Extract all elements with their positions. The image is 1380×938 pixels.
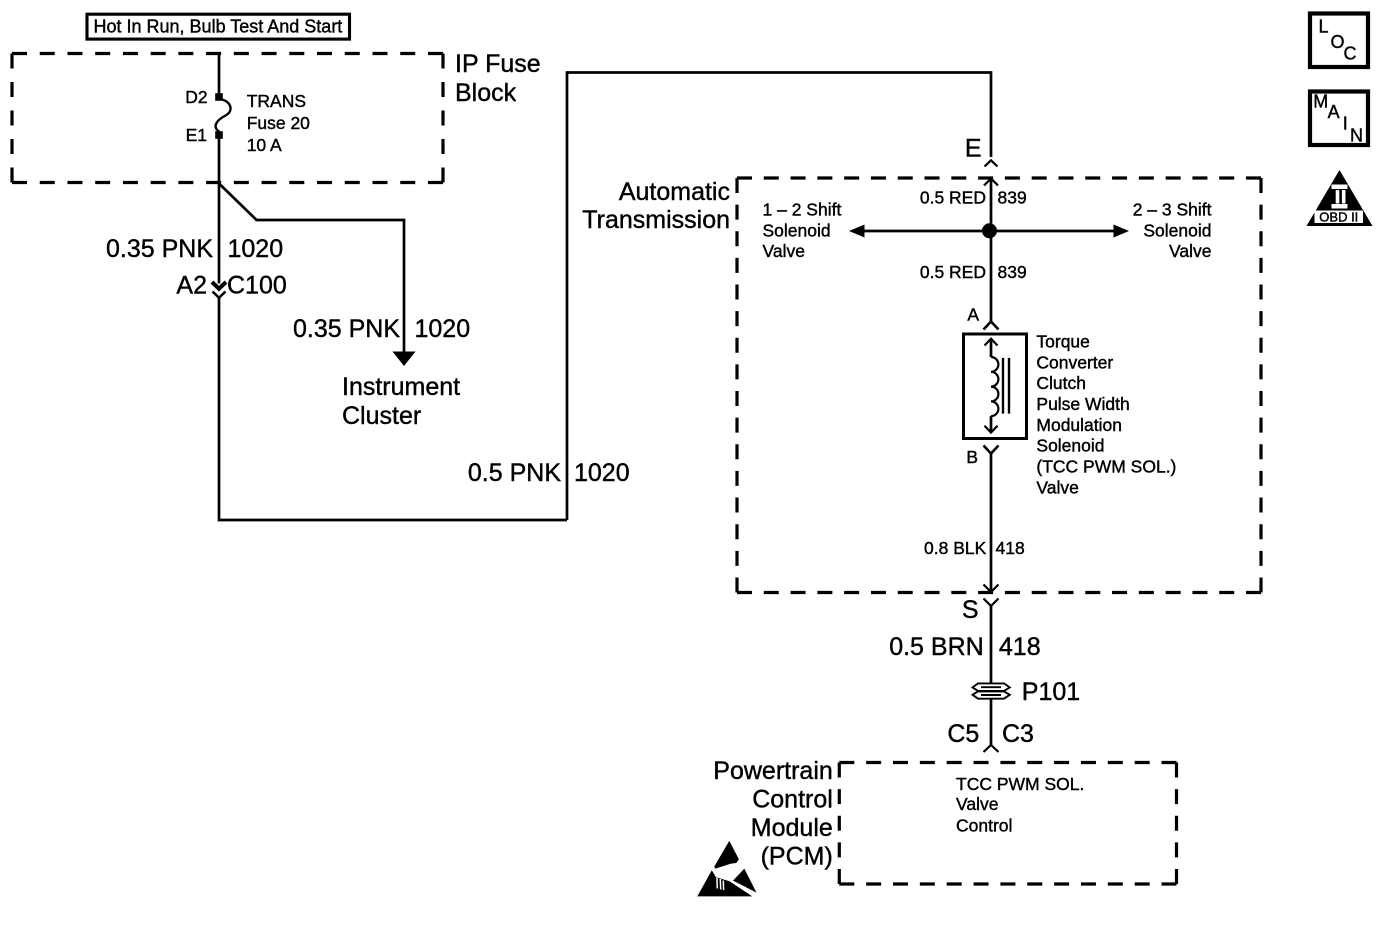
wire from C100 down and right to riser: [219, 298, 567, 520]
wire from node down to terminal A: [990, 231, 993, 321]
svg-text:(TCC PWM SOL.): (TCC PWM SOL.): [1036, 457, 1176, 477]
svg-text:Converter: Converter: [1036, 352, 1113, 372]
wire to 1-2 shift solenoid valve: [862, 230, 990, 233]
svg-text:D2: D2: [185, 87, 207, 107]
svg-text:418: 418: [999, 633, 1041, 661]
svg-text:A2: A2: [176, 272, 207, 300]
svg-text:Clutch: Clutch: [1036, 373, 1086, 393]
svg-text:C5: C5: [947, 720, 979, 748]
terminal E chevron: [985, 160, 998, 166]
ESD sensitive device symbol: [697, 841, 756, 897]
terminal B chevron: [984, 446, 999, 454]
svg-text:E1: E1: [186, 125, 207, 145]
wire from feed into fuse: [218, 54, 221, 95]
wire label 0.5 PNK 1020: [468, 459, 630, 487]
svg-text:Control: Control: [752, 785, 833, 813]
wire riser up and across to transmission: [567, 73, 991, 521]
wire label 0.35 PNK 1020 (upper): [106, 235, 283, 263]
svg-text:TCC PWM SOL.: TCC PWM SOL.: [956, 774, 1084, 794]
Instrument Cluster label: [342, 373, 460, 430]
terminal C5 / C3 labels: [947, 720, 1034, 748]
svg-text:0.5 PNK: 0.5 PNK: [468, 459, 561, 487]
svg-text:TRANS: TRANS: [247, 91, 306, 111]
svg-text:OBD II: OBD II: [1319, 209, 1358, 224]
svg-text:Solenoid: Solenoid: [1143, 220, 1211, 240]
svg-text:A: A: [1328, 102, 1340, 122]
terminal C5/C3 chevron: [984, 745, 999, 752]
svg-text:10 A: 10 A: [247, 135, 282, 155]
wire from fuse E1 down to connector C100: [218, 139, 221, 284]
IP Fuse Block dashed box: [12, 54, 443, 183]
feed box "Hot In Run, Bulb Test And Start": [87, 14, 350, 39]
svg-text:N: N: [1350, 125, 1363, 145]
arrowhead to 1-2 shift solenoid: [849, 225, 865, 238]
svg-text:Control: Control: [956, 815, 1012, 835]
PCM label: [713, 757, 833, 871]
svg-text:Valve: Valve: [1036, 477, 1078, 497]
terminal A chevron: [984, 322, 999, 330]
wire label 0.5 RED 839 (lower): [920, 262, 1027, 282]
wire to 2-3 shift solenoid valve: [990, 230, 1116, 233]
svg-text:Instrument: Instrument: [342, 373, 460, 401]
svg-text:Cluster: Cluster: [342, 402, 421, 430]
arrowhead to 2-3 shift solenoid: [1114, 225, 1130, 238]
TCC PWM solenoid box: [964, 334, 1027, 439]
2-3 Shift Solenoid Valve label: [1133, 200, 1212, 261]
wire from B to transmission case exit: [990, 454, 993, 593]
svg-text:839: 839: [998, 262, 1027, 282]
TCC PWM solenoid description label: [1036, 332, 1176, 498]
fuse F20 terminal D2: [215, 93, 223, 101]
wire label 0.8 BLK 418: [924, 538, 1025, 558]
svg-text:0.35 PNK: 0.35 PNK: [293, 315, 400, 343]
wire arrowhead leaving transmission: [984, 585, 999, 593]
svg-text:O: O: [1331, 32, 1345, 52]
svg-text:Torque: Torque: [1036, 332, 1090, 352]
svg-text:Valve: Valve: [956, 794, 998, 814]
fuse value label TRANS Fuse 20 10 A: [247, 91, 310, 155]
svg-text:C: C: [1344, 44, 1357, 64]
svg-text:C3: C3: [1002, 720, 1034, 748]
svg-text:I: I: [1343, 114, 1348, 134]
fuse F20 terminal E1: [215, 131, 223, 139]
svg-text:Pulse Width: Pulse Width: [1036, 394, 1129, 414]
svg-text:0.5 RED: 0.5 RED: [920, 262, 986, 282]
svg-text:Block: Block: [455, 79, 517, 107]
TCC PWM SOL. Valve Control label: [956, 774, 1084, 835]
svg-text:1 – 2 Shift: 1 – 2 Shift: [763, 200, 842, 220]
OBD II symbol: [1307, 170, 1373, 226]
svg-text:Transmission: Transmission: [582, 206, 730, 234]
LOC reference box: [1310, 14, 1368, 68]
wire branch diagonal to instrument cluster: [219, 184, 404, 353]
svg-text:Module: Module: [751, 814, 833, 842]
wire label 0.5 RED 839 (upper): [920, 188, 1027, 208]
svg-text:Fuse 20: Fuse 20: [247, 113, 310, 133]
wire arrowhead entering transmission at E: [984, 179, 998, 186]
wire label 0.5 BRN 418: [889, 633, 1040, 661]
terminal S chevron: [984, 599, 999, 607]
svg-text:418: 418: [996, 538, 1025, 558]
svg-text:Automatic: Automatic: [619, 178, 730, 206]
arrow into Instrument Cluster: [393, 352, 416, 367]
svg-text:Modulation: Modulation: [1036, 415, 1122, 435]
svg-text:Solenoid: Solenoid: [763, 220, 831, 240]
svg-text:Valve: Valve: [763, 241, 805, 261]
IP Fuse Block label: [455, 50, 541, 107]
wire from P101 to PCM: [990, 699, 993, 746]
svg-text:0.5 BRN: 0.5 BRN: [889, 633, 983, 661]
svg-text:A: A: [967, 305, 979, 325]
svg-text:S: S: [962, 596, 979, 624]
svg-text:(PCM): (PCM): [761, 843, 833, 871]
svg-text:Powertrain: Powertrain: [713, 757, 833, 785]
TCC PWM solenoid coil: [985, 339, 1010, 433]
svg-text:Hot In Run, Bulb Test And Star: Hot In Run, Bulb Test And Start: [94, 16, 343, 36]
Automatic Transmission label: [582, 178, 730, 234]
svg-text:0.35 PNK: 0.35 PNK: [106, 235, 213, 263]
svg-text:1020: 1020: [228, 235, 284, 263]
svg-text:M: M: [1313, 91, 1328, 111]
svg-text:Solenoid: Solenoid: [1036, 436, 1104, 456]
Powertrain Control Module dashed box: [839, 763, 1176, 885]
connector C100 terminal A2: [176, 272, 286, 300]
svg-text:1020: 1020: [415, 315, 471, 343]
wire label 0.35 PNK 1020 (to instrument cluster): [293, 315, 470, 343]
svg-text:P101: P101: [1022, 678, 1080, 706]
fuse F20 TRANS Fuse 20 10 A: [216, 100, 231, 133]
svg-text:2 – 3 Shift: 2 – 3 Shift: [1133, 200, 1212, 220]
svg-text:C100: C100: [227, 272, 287, 300]
svg-text:1020: 1020: [574, 459, 630, 487]
wire from S to P101: [990, 606, 993, 683]
svg-text:Valve: Valve: [1169, 241, 1211, 261]
svg-text:L: L: [1319, 16, 1329, 36]
Automatic Transmission dashed box: [737, 178, 1261, 593]
svg-text:IP Fuse: IP Fuse: [455, 50, 541, 78]
1-2 Shift Solenoid Valve label: [763, 200, 842, 261]
pass-through connector P101: [973, 683, 1010, 698]
svg-text:0.5 RED: 0.5 RED: [920, 188, 986, 208]
MAIN reference box: [1310, 91, 1368, 145]
svg-text:B: B: [966, 447, 978, 467]
svg-text:839: 839: [998, 188, 1027, 208]
svg-text:0.8 BLK: 0.8 BLK: [924, 538, 987, 558]
wire from E to node: [990, 179, 993, 232]
junction node dot: [982, 223, 997, 238]
svg-text:E: E: [965, 135, 982, 163]
